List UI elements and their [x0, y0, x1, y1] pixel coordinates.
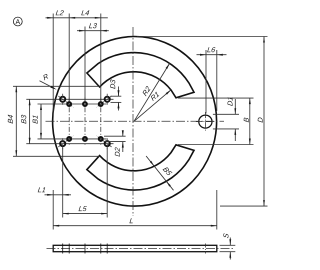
dimension B4 — [15, 86, 17, 156]
diagonal centerline through index hole SE — [96, 136, 111, 147]
dimension D — [263, 37, 265, 207]
dimension L2 — [46, 17, 70, 19]
six mounting holes D2 (small) — [67, 102, 71, 106]
extension line from left edge of disc — [52, 14, 54, 118]
extension lines D2 (mounting hole dia) — [104, 135, 126, 137]
dimension D1 — [234, 99, 236, 114]
extension lines D3 (index hole dia) — [111, 95, 122, 97]
extension line index col 1 (bottom) — [62, 148, 64, 218]
dimension L1 — [45, 194, 72, 196]
main disc outline — [53, 37, 217, 207]
leader R — [40, 81, 55, 89]
dimension D2 — [122, 131, 124, 137]
dimension S — [229, 238, 231, 246]
extension line small hole col 1 — [68, 14, 70, 102]
side view bore centerline — [204, 244, 206, 254]
diagonal centerline through index hole NW — [58, 96, 73, 107]
dimension L4 — [69, 17, 108, 19]
small hole column centerlines — [68, 98, 70, 146]
extension lines B (slot step vertices) — [178, 97, 254, 99]
dimension L — [53, 225, 217, 227]
dimension L6 — [197, 54, 227, 56]
extension line small hole col 3 — [100, 14, 102, 102]
diagonal centerline through index hole SW — [58, 136, 73, 147]
bore B crosshair — [196, 121, 215, 123]
large hole row centerlines / B3 extension lines — [26, 98, 113, 100]
slot width dimension B5 — [146, 156, 173, 190]
view label A — [13, 17, 22, 26]
vertical centerline — [132, 27, 134, 216]
dimension B — [249, 98, 251, 144]
dimension B3 — [29, 99, 31, 143]
extension lines S — [220, 244, 236, 246]
extension lines D (disc dia) — [137, 36, 268, 38]
extension line disc right (bottom) — [216, 190, 218, 230]
extension lines L6 — [205, 50, 207, 114]
radius dimension R2 — [134, 63, 170, 121]
side view centerline — [47, 248, 234, 250]
dimension L3 — [77, 30, 109, 32]
four index holes D3 (large) — [60, 97, 65, 102]
dimension L5 — [63, 213, 107, 215]
dimension B1 — [40, 104, 42, 139]
top cam slot — [87, 53, 194, 98]
bore B (right hole) — [199, 115, 212, 128]
bottom cam slot — [87, 145, 194, 190]
extension lines D1 (bore dia) — [213, 113, 239, 115]
radius dimension R1 — [134, 90, 171, 121]
small hole row centerlines / B1 extension lines — [38, 103, 107, 105]
extension lines B4 (slot inner ends) — [13, 85, 100, 87]
extension line index col 2 (bottom) — [106, 148, 108, 218]
side view hole section lines — [62, 244, 64, 254]
horizontal centerline — [46, 120, 225, 122]
side view plate — [53, 245, 217, 251]
extension line small hole col 2 — [84, 27, 86, 102]
dimension D3 — [118, 87, 120, 97]
extension line disc left (bottom) — [52, 190, 54, 230]
diagonal centerline through index hole NE — [96, 96, 111, 107]
